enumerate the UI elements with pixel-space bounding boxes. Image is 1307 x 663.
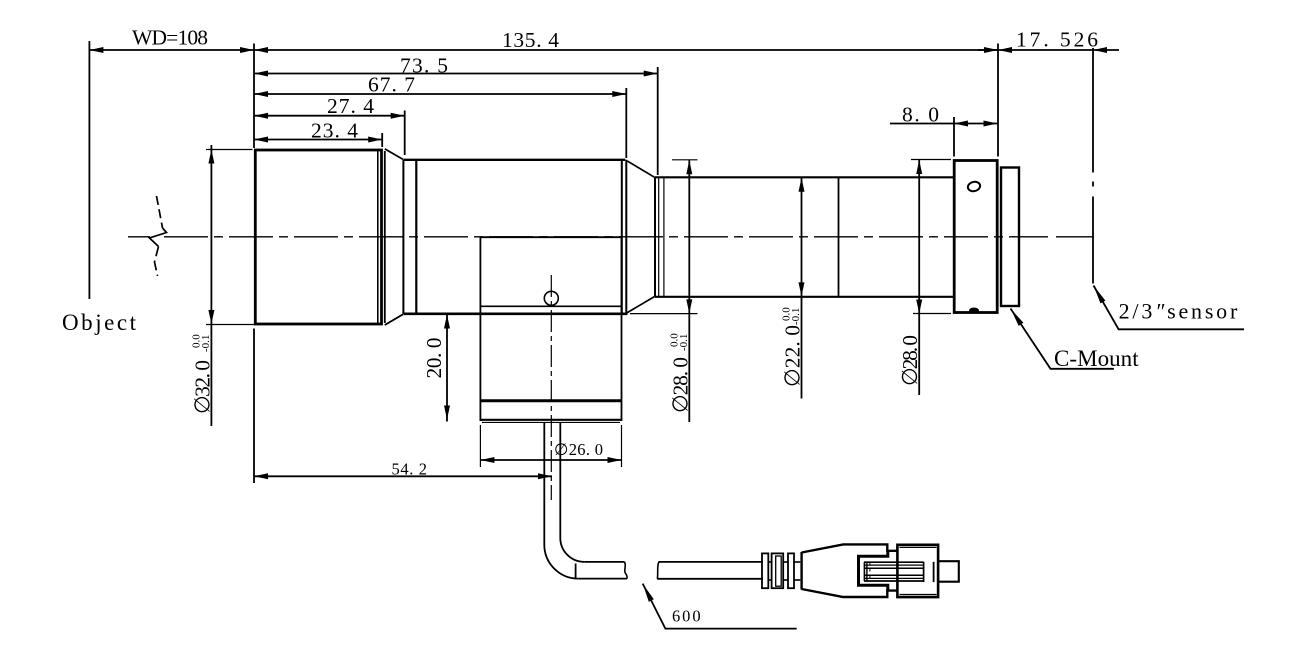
port box bottom edge — [480, 305, 621, 307]
svg-text:∅22. 0: ∅22. 0 — [781, 325, 805, 387]
extension line at x=404.7 — [404, 111, 406, 156]
boot left edge — [800, 552, 802, 590]
setscrew hole on mount — [967, 181, 981, 193]
port bottom edge — [480, 419, 621, 421]
extension line at x=954 (mount left) — [953, 117, 955, 157]
object plane extension line — [88, 41, 90, 299]
strain relief rib 2 — [772, 553, 784, 588]
boot top outline — [802, 544, 898, 552]
shell rect — [897, 545, 938, 597]
pin block right vertical — [923, 562, 925, 582]
extension line at x=998 (mount face) — [997, 44, 999, 157]
svg-text:WD=108: WD=108 — [132, 26, 208, 50]
thin barrel joint line — [838, 177, 840, 296]
ring collar verticals — [402, 160, 404, 314]
dimension D26.0 (horizontal, below port) — [480, 459, 621, 461]
leader 2/3" sensor — [1094, 286, 1245, 330]
end tab — [938, 561, 959, 582]
dimension D28 right (vertical) — [918, 160, 920, 396]
svg-text:C-Mount: C-Mount — [1054, 346, 1139, 371]
port groove thick line — [480, 399, 621, 402]
cable break end — [625, 562, 628, 579]
pin block left verticals — [863, 562, 865, 581]
svg-text:-0.1: -0.1 — [790, 308, 802, 325]
strain relief rib 1 — [762, 553, 768, 588]
taper to ring — [385, 149, 403, 160]
front barrel inner double line — [377, 150, 379, 324]
notch 2 — [783, 561, 788, 563]
dimension 17.526 — [978, 49, 998, 51]
svg-text:-0.1: -0.1 — [678, 334, 690, 351]
mount block (D28) — [954, 161, 997, 313]
front barrel (D32) — [255, 150, 381, 324]
thin barrel (D22) edges — [655, 176, 954, 178]
front face extension line (bottom, for 54.2) — [253, 329, 255, 484]
dimension 23.4 — [254, 139, 382, 141]
cable bend inner — [560, 538, 584, 562]
svg-text:Object: Object — [62, 310, 137, 335]
extension line at x=625 — [625, 88, 627, 158]
cable horizontal run 1 — [578, 578, 627, 580]
svg-text:67. 7: 67. 7 — [368, 73, 415, 97]
port side walls — [479, 237, 481, 421]
cable joint line — [575, 564, 577, 579]
extension line at x=382.2 — [381, 133, 383, 147]
svg-text:∅32. 0: ∅32. 0 — [190, 360, 214, 414]
pin block lines — [864, 561, 924, 563]
dimension 73.5 — [254, 73, 658, 75]
boot bottom outline — [802, 589, 898, 597]
break squiggle on axis — [150, 196, 167, 276]
dimension 54.2 — [254, 475, 552, 477]
dimension 8.0 — [890, 123, 998, 125]
svg-text:600: 600 — [672, 607, 701, 626]
port center line — [550, 275, 552, 500]
taper to thin barrel — [627, 161, 654, 177]
cable bend outer — [544, 545, 578, 579]
svg-text:135. 4: 135. 4 — [502, 28, 559, 52]
svg-text:54. 2: 54. 2 — [392, 460, 428, 479]
port box top edge — [480, 236, 621, 238]
C-mount thread ring — [1001, 168, 1019, 307]
label D32.0 0/-0.1 (rotated) — [190, 334, 214, 414]
notch 3 — [794, 561, 800, 563]
dimension D32 (vertical, left) — [210, 145, 212, 426]
dimension D28 left (vertical) — [688, 160, 690, 422]
notch 1 — [768, 561, 771, 563]
svg-text:2/3″sensor: 2/3″sensor — [1119, 299, 1238, 324]
svg-text:∅26. 0: ∅26. 0 — [554, 440, 603, 459]
mid barrel right double edge — [621, 160, 623, 314]
svg-text:20. 0: 20. 0 — [422, 338, 446, 379]
dimension 20.0 (vertical) — [446, 313, 448, 422]
front face extension line (top) — [253, 44, 255, 149]
socket inner vertical — [933, 562, 935, 582]
svg-text:27. 4: 27. 4 — [327, 94, 374, 118]
dimension WD=108 — [89, 49, 254, 51]
dimension 67.7 — [254, 93, 626, 95]
screw circle on port — [544, 291, 558, 305]
cable vertical run — [543, 422, 545, 544]
thin barrel start verticals — [654, 177, 656, 296]
svg-text:-0.1: -0.1 — [200, 335, 212, 352]
latch bracket — [859, 551, 888, 591]
cable segment 2 — [657, 562, 659, 579]
leader 600 — [643, 584, 797, 629]
leader C-Mount — [1011, 309, 1114, 369]
extension line at x=657.5 — [657, 67, 659, 175]
sensor plane center line — [1092, 48, 1094, 284]
strain relief rib 3 — [788, 553, 794, 588]
svg-text:8. 0: 8. 0 — [902, 103, 939, 127]
svg-text:∅28. 0: ∅28. 0 — [898, 335, 922, 386]
mid barrel (D28) top and bottom edges — [403, 159, 625, 161]
dimension 27.4 — [254, 115, 405, 117]
svg-text:23. 4: 23. 4 — [311, 119, 358, 143]
bottom setscrew silhouette — [969, 308, 979, 314]
dimension D22 (vertical) — [801, 178, 803, 399]
dimension 135.4 — [254, 49, 998, 51]
optical axis center line — [128, 236, 1093, 238]
svg-text:∅28. 0: ∅28. 0 — [668, 357, 692, 413]
